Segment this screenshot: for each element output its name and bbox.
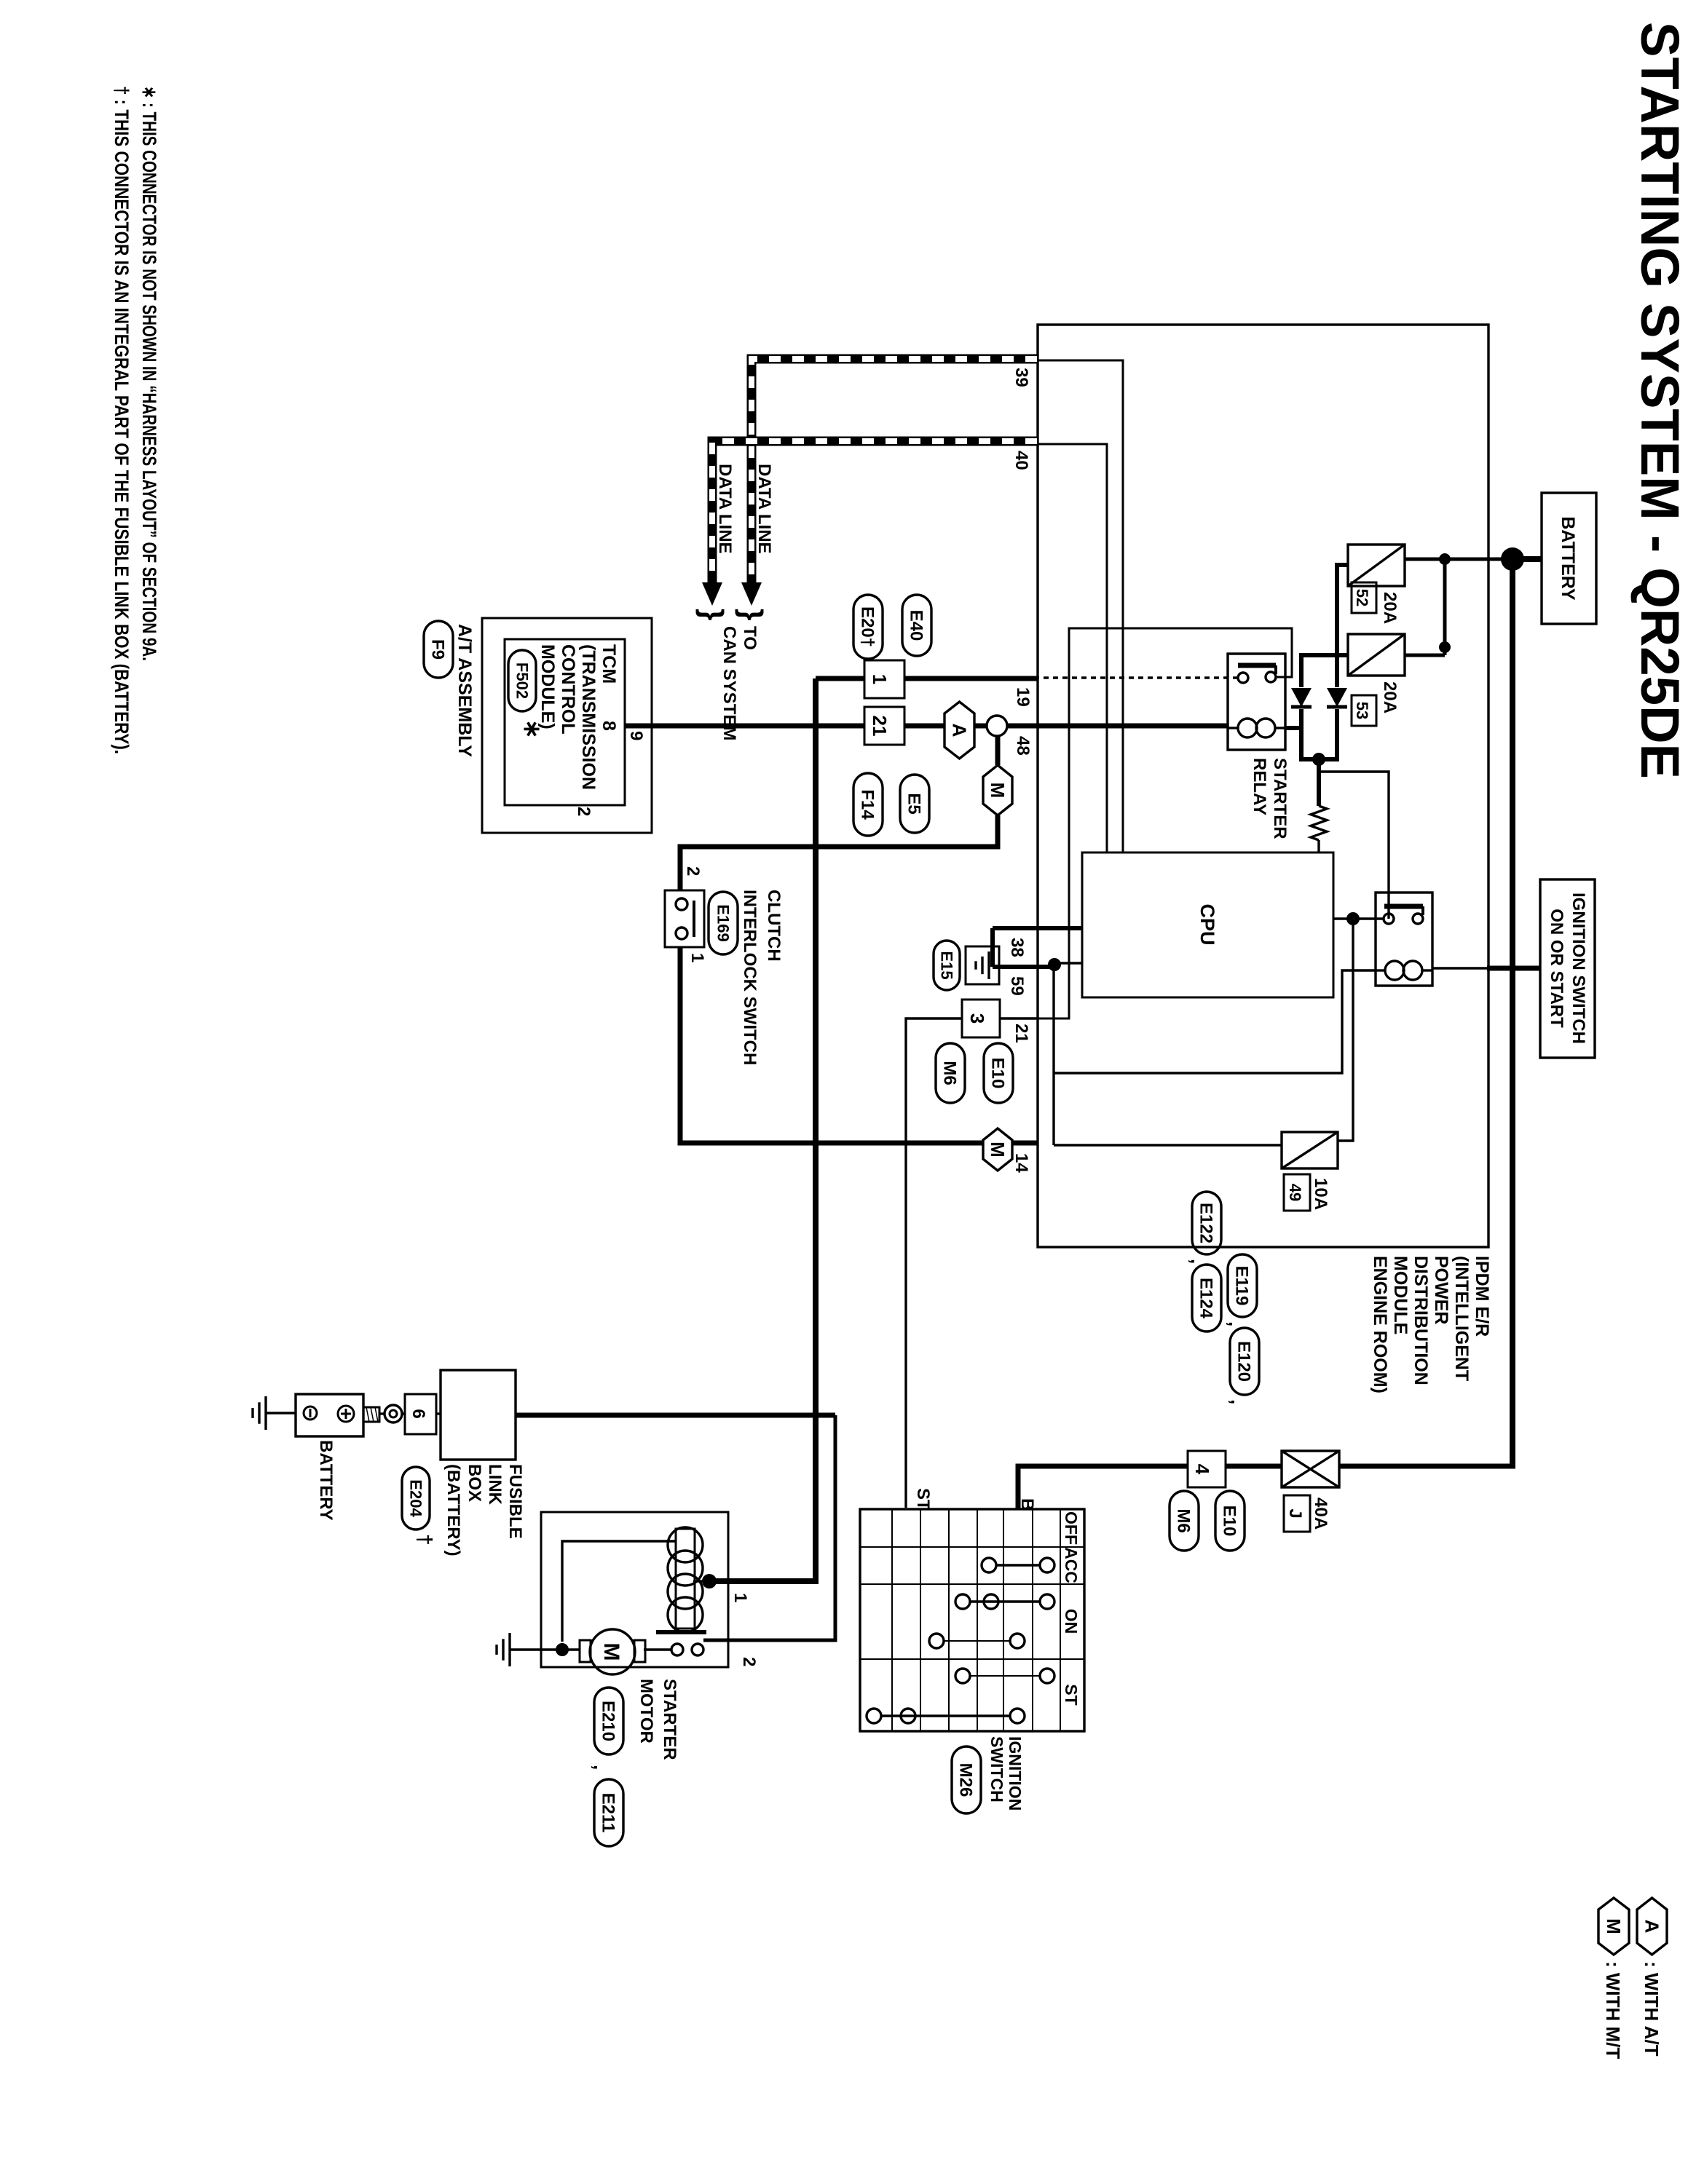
wire contact to brush — [644, 1648, 671, 1650]
wire ignition switch stub — [1487, 966, 1540, 971]
ignition relay coil — [1376, 961, 1432, 980]
wire connector21 to TCM — [625, 724, 864, 729]
svg-text:DATA LINE: DATA LINE — [754, 464, 774, 554]
label pin 38 — [1007, 938, 1027, 957]
svg-text:21: 21 — [869, 716, 891, 737]
wire fusible link riser — [516, 1413, 835, 1418]
comma between E119 E120 — [1225, 1321, 1249, 1404]
CPU box — [1082, 852, 1333, 997]
connector M26 — [952, 1746, 981, 1813]
wire relay contact to pin21 internal — [1037, 628, 1292, 1018]
solenoid contact plate — [656, 1630, 706, 1634]
svg-text:F502: F502 — [513, 662, 531, 699]
fusible link box component — [441, 1370, 516, 1460]
label solenoid pin 1 — [730, 1593, 750, 1602]
clutch switch contact right — [676, 927, 687, 939]
wire node to resistor — [1317, 759, 1321, 806]
wire CPU stub to node D1 — [1054, 962, 1082, 964]
connector E10 second — [1215, 1491, 1245, 1551]
ignition relay contact bar — [1384, 906, 1423, 915]
svg-text:6: 6 — [409, 1409, 428, 1418]
wire relay contact to pin 19 dashed — [1037, 676, 1238, 678]
svg-text:CLUTCH: CLUTCH — [764, 890, 784, 962]
svg-text:E120: E120 — [1234, 1341, 1254, 1382]
fusible link 40A J — [1282, 1451, 1339, 1487]
svg-text:A: A — [948, 724, 970, 737]
connector E119 — [1228, 1254, 1257, 1317]
svg-text:,: , — [1187, 1259, 1209, 1264]
label 40A — [1311, 1497, 1330, 1530]
wire pin19 out — [816, 676, 1037, 681]
svg-text:E124: E124 — [1196, 1278, 1216, 1319]
svg-text:M26: M26 — [956, 1763, 976, 1797]
connector M6 — [936, 1043, 965, 1103]
label 20A fuse52 — [1380, 592, 1400, 624]
svg-text:E10: E10 — [1220, 1506, 1239, 1537]
starter motor brush lower — [580, 1640, 591, 1662]
wire fuse49 top to node D2 — [1338, 919, 1353, 1141]
svg-text:FUSIBLE: FUSIBLE — [505, 1464, 525, 1539]
label clutch pin 2 — [683, 866, 703, 876]
wire M to clutch feed — [680, 815, 998, 890]
svg-text:1: 1 — [869, 674, 891, 684]
svg-text:40: 40 — [1011, 451, 1031, 470]
connector box 3 — [962, 1000, 1000, 1037]
label pin 9 — [626, 731, 646, 740]
wire starter ground stem — [510, 1648, 562, 1650]
wire circle to A hexagon — [974, 724, 987, 729]
wire battery to ground — [266, 1412, 296, 1414]
connector E40 — [902, 595, 931, 656]
svg-text:INTERLOCK SWITCH: INTERLOCK SWITCH — [740, 890, 760, 1065]
svg-text:2: 2 — [739, 1657, 759, 1666]
node fuse bus right — [1439, 641, 1451, 653]
legend hexagon M — [1598, 1898, 1629, 1955]
label DATA LINE 2 — [715, 464, 735, 554]
wire pin14 down — [1012, 1141, 1037, 1146]
grid ACC contacts — [982, 1558, 1054, 1572]
diode D2 — [1327, 688, 1347, 707]
svg-text:SWITCH: SWITCH — [987, 1736, 1006, 1803]
connector E15 — [934, 941, 960, 990]
svg-text:F14: F14 — [858, 789, 877, 820]
svg-text:CPU: CPU — [1196, 903, 1218, 945]
CAN data line pin39 — [752, 359, 1037, 582]
svg-text:19: 19 — [1013, 687, 1033, 707]
wire pin21 to connector 3 — [1000, 1017, 1037, 1019]
IPDM E/R label — [1370, 1256, 1492, 1393]
svg-text:E15: E15 — [937, 951, 955, 979]
battery plus terminal — [338, 1406, 354, 1422]
svg-text:1: 1 — [730, 1593, 750, 1602]
svg-text:38: 38 — [1007, 938, 1027, 957]
legend hexagon A — [1637, 1898, 1667, 1955]
svg-text:(BATTERY): (BATTERY) — [443, 1464, 463, 1556]
wire circle to M hexagon — [995, 736, 1001, 765]
label solenoid pin 2 — [739, 1657, 759, 1666]
grid ON contacts right — [929, 1634, 1025, 1648]
label pin 40 — [1011, 451, 1031, 470]
junction open circle pin48 — [987, 716, 1007, 736]
CAN data line pin40 — [712, 441, 1037, 582]
label STARTER RELAY — [1250, 758, 1290, 839]
connector F9 — [424, 621, 453, 678]
label J box — [1284, 1495, 1310, 1532]
label pin 59 — [1007, 976, 1027, 996]
wire diode D2 out — [1320, 709, 1337, 759]
svg-text:8: 8 — [599, 721, 619, 731]
svg-text:14: 14 — [1011, 1153, 1031, 1173]
svg-text:STARTER: STARTER — [660, 1679, 679, 1760]
svg-text:TCM: TCM — [599, 644, 619, 684]
ignition switch grid box — [860, 1509, 1084, 1731]
svg-text:BATTERY: BATTERY — [316, 1440, 336, 1521]
label IGNITION SWITCH — [987, 1736, 1025, 1811]
wire battery node to fuse52 — [1405, 558, 1513, 561]
hexagon M second — [983, 1128, 1012, 1171]
starter relay box — [1228, 654, 1285, 750]
ignition relay box — [1376, 893, 1432, 986]
wire 6 to ring — [402, 1412, 405, 1415]
svg-text:49: 49 — [1286, 1184, 1304, 1201]
connector E124 — [1192, 1265, 1221, 1332]
node D2 on CPU wire — [1346, 912, 1360, 925]
wire contact feed W2 — [703, 1415, 835, 1640]
label TCM pin 2 — [574, 807, 593, 816]
svg-text:53: 53 — [1353, 702, 1371, 719]
svg-text:DATA LINE: DATA LINE — [715, 464, 735, 554]
label clutch pin 1 — [687, 953, 707, 962]
wire pin39 internal — [1037, 360, 1123, 852]
svg-text:10A: 10A — [1311, 1178, 1330, 1210]
label 10A — [1311, 1178, 1330, 1210]
connector F14 — [853, 773, 883, 836]
svg-text:†: † — [414, 1534, 436, 1546]
svg-text:,: , — [590, 1765, 612, 1770]
wire A to connector 21 — [904, 724, 944, 729]
solenoid contact circle upper — [692, 1644, 703, 1655]
connector E210 — [594, 1688, 623, 1754]
fuse 52 20A — [1348, 545, 1405, 586]
wire B feed down — [1339, 1464, 1515, 1469]
connector E211 — [594, 1779, 623, 1846]
starter motor brush upper — [634, 1640, 645, 1662]
svg-text:M: M — [987, 783, 1009, 799]
svg-text:M: M — [1603, 1918, 1625, 1934]
wire solenoid coil feed — [709, 678, 816, 1581]
svg-text:BATTERY: BATTERY — [1558, 516, 1578, 601]
svg-text:J: J — [1285, 1508, 1305, 1518]
label FUSIBLE LINK BOX — [443, 1464, 525, 1556]
svg-text:E169: E169 — [714, 904, 732, 941]
connector F502 star — [508, 650, 545, 739]
starter relay contact terminal circle upper — [1266, 672, 1276, 682]
wire resistor to CPU — [1317, 840, 1320, 852]
solenoid core — [676, 1529, 695, 1629]
svg-text:OFF: OFF — [1062, 1511, 1081, 1545]
grid ST contacts left — [955, 1669, 1054, 1683]
wire dot to coil — [693, 1580, 709, 1582]
label 52 box — [1352, 582, 1376, 613]
connector E169 — [709, 892, 738, 954]
fuse 49 10A — [1282, 1132, 1338, 1168]
svg-text:52: 52 — [1353, 589, 1371, 606]
diode D1 — [1291, 688, 1312, 707]
wire pin59 down — [993, 965, 1054, 969]
label pin 21 — [1011, 1024, 1031, 1043]
svg-text:E210: E210 — [599, 1701, 618, 1741]
label pin 48 — [1013, 736, 1033, 756]
ground battery — [253, 1396, 266, 1430]
wire pin48 out — [1007, 724, 1037, 729]
svg-text:A: A — [1641, 1920, 1663, 1934]
resistor in IPDM — [1311, 806, 1327, 840]
svg-text:: WITH M/T: : WITH M/T — [1602, 1961, 1624, 2059]
label pin 39 — [1011, 368, 1031, 387]
legend text WITH MT — [1602, 1961, 1624, 2059]
legend text WITH AT — [1641, 1961, 1663, 2057]
wire fuseJ to connector 4 — [1226, 1464, 1282, 1469]
connector E10 — [984, 1043, 1013, 1103]
wire relay2 contact to CPU — [1333, 917, 1384, 919]
svg-text:STARTING SYSTEM - QR25DE: STARTING SYSTEM - QR25DE — [1630, 22, 1688, 779]
ground box E15 — [966, 946, 999, 984]
wire bus to fuse53 — [1405, 654, 1445, 657]
connector box 4 — [1188, 1451, 1226, 1487]
node solenoid coil dot — [702, 1574, 717, 1588]
svg-text:RELAY: RELAY — [1250, 758, 1269, 815]
svg-text:BOX: BOX — [465, 1464, 484, 1502]
TCM label — [537, 644, 619, 790]
battery terminal hatched — [363, 1407, 379, 1422]
ignition relay contact circle upper — [1413, 914, 1423, 924]
svg-text:E5: E5 — [904, 793, 924, 814]
note asterisk harness layout — [138, 86, 160, 661]
wire CPU pin38 to ground — [993, 926, 1082, 930]
svg-text:E122: E122 — [1196, 1203, 1216, 1243]
ignition relay contact circle lower — [1384, 914, 1394, 924]
node diode junction — [1312, 753, 1325, 766]
label BATTERY component — [316, 1440, 336, 1521]
wire ring to terminal — [379, 1412, 384, 1415]
svg-text:∗ : THIS CONNECTOR IS NOT SHOW: ∗ : THIS CONNECTOR IS NOT SHOWN IN “HARN… — [138, 86, 160, 661]
arrow data line 1 — [741, 582, 762, 606]
svg-text:E40: E40 — [907, 610, 926, 641]
label B terminal — [1017, 1498, 1037, 1511]
wire M2 to clutch switch — [680, 947, 983, 1143]
label STARTER MOTOR — [636, 1679, 679, 1760]
svg-text:IGNITION SWITCH: IGNITION SWITCH — [1569, 893, 1588, 1044]
svg-text:(INTELLIGENT: (INTELLIGENT — [1451, 1256, 1472, 1381]
wire relay2 coil bottom loop — [1054, 970, 1376, 1073]
wire ground joiner — [990, 928, 995, 967]
node fuse bus left — [1439, 553, 1451, 565]
svg-text:E204: E204 — [406, 1479, 425, 1517]
connector E5 — [900, 775, 929, 833]
battery component box — [296, 1394, 363, 1436]
grid ON contacts — [955, 1594, 1054, 1609]
connector box 21 — [864, 707, 904, 745]
connector E122 — [1192, 1192, 1221, 1254]
battery minus terminal — [304, 1406, 317, 1420]
grid label OFF — [1062, 1511, 1081, 1545]
svg-text:DISTRIBUTION: DISTRIBUTION — [1411, 1256, 1431, 1385]
svg-text:1: 1 — [687, 953, 707, 962]
svg-text:ENGINE ROOM): ENGINE ROOM) — [1370, 1256, 1390, 1393]
connector M6 second — [1170, 1491, 1199, 1551]
solenoid coil loops — [668, 1527, 703, 1632]
arrow data line 2 — [702, 582, 722, 606]
clutch switch bar — [693, 901, 695, 937]
starter relay contact bar — [1238, 665, 1276, 674]
svg-text:E119: E119 — [1232, 1266, 1252, 1306]
IPDM E/R box — [1038, 325, 1488, 1247]
connector E20 dagger — [853, 595, 883, 659]
TCM box — [505, 639, 625, 805]
starter relay contact terminal circle lower — [1238, 673, 1248, 683]
svg-text:}: } — [695, 609, 730, 620]
starter relay coil — [1228, 719, 1285, 737]
svg-text:20A: 20A — [1380, 592, 1400, 624]
hexagon A — [944, 702, 974, 759]
wire bus 871 — [1052, 963, 1054, 1145]
fuse 53 20A — [1348, 634, 1405, 676]
node D1 junction — [1048, 958, 1061, 971]
grid ST contacts right — [867, 1709, 1025, 1723]
svg-text:: WITH A/T: : WITH A/T — [1641, 1961, 1663, 2057]
node starter ground — [556, 1643, 569, 1656]
wire fuse53 to diode D1 — [1301, 655, 1349, 687]
wire coil left to ground line — [562, 1541, 676, 1642]
label pin 14 — [1011, 1153, 1031, 1173]
ring terminal — [384, 1405, 402, 1423]
svg-text:LINK: LINK — [485, 1464, 505, 1506]
battery supply box — [1542, 493, 1596, 624]
label 53 box — [1352, 695, 1376, 726]
svg-text:}: } — [735, 609, 769, 620]
hexagon M first — [983, 765, 1012, 815]
ground starter motor — [497, 1633, 510, 1666]
label CLUTCH INTERLOCK SWITCH — [740, 890, 784, 1065]
wire fuse49 bottom to bus — [1054, 1144, 1282, 1146]
note dagger fusible link box — [111, 86, 133, 754]
svg-text:MODULE: MODULE — [1390, 1256, 1411, 1334]
svg-text:ST: ST — [913, 1488, 933, 1511]
AT assembly box — [482, 618, 652, 833]
wire brush to ground node — [562, 1648, 580, 1650]
svg-text:E211: E211 — [599, 1793, 618, 1833]
svg-text:2: 2 — [574, 807, 593, 816]
svg-text:IPDM E/R: IPDM E/R — [1472, 1256, 1492, 1337]
svg-text:,: , — [1227, 1399, 1249, 1404]
title STARTING SYSTEM - QR25DE — [1630, 22, 1688, 779]
ignition switch ON OR START box — [1540, 879, 1595, 1058]
svg-text:M: M — [599, 1643, 623, 1661]
connector box 1 — [864, 660, 904, 698]
comma after E122 — [1187, 1259, 1209, 1264]
comma E210 E211 — [590, 1765, 612, 1770]
label ST terminal — [913, 1488, 933, 1511]
label TO CAN SYSTEM — [719, 626, 760, 740]
svg-text:ACC: ACC — [1062, 1547, 1081, 1583]
wire fuse52 to diode D2 — [1337, 565, 1348, 687]
svg-text:M6: M6 — [940, 1061, 960, 1085]
svg-text:40A: 40A — [1311, 1497, 1330, 1530]
starter motor box — [541, 1512, 728, 1667]
svg-text:MOTOR: MOTOR — [636, 1679, 656, 1744]
wire relay coil to pin 48 — [1037, 724, 1228, 729]
svg-text:POWER: POWER — [1431, 1256, 1451, 1324]
svg-text:MODULE): MODULE) — [537, 644, 558, 729]
wire starter relay coil top to diode node — [1285, 726, 1301, 730]
wire fuse bus — [1443, 559, 1447, 655]
ignition switch grid lines — [860, 1509, 1084, 1731]
svg-text:59: 59 — [1007, 976, 1027, 996]
svg-text:M6: M6 — [1174, 1508, 1194, 1532]
svg-text:(TRANSMISSION: (TRANSMISSION — [578, 644, 599, 790]
svg-text:9: 9 — [626, 731, 646, 740]
svg-text:STARTER: STARTER — [1270, 758, 1290, 839]
grid label ACC — [1062, 1547, 1081, 1583]
grid label ST — [1062, 1684, 1081, 1705]
svg-text:CONTROL: CONTROL — [558, 644, 578, 735]
svg-text:E20†: E20† — [858, 606, 877, 647]
brace data line 2 — [695, 609, 730, 620]
wire battery box to main node — [1511, 556, 1542, 562]
label DATA LINE 1 — [754, 464, 774, 554]
svg-text:IGNITION: IGNITION — [1006, 1736, 1025, 1811]
svg-text:2: 2 — [683, 866, 703, 876]
wire pin40 internal — [1037, 444, 1107, 852]
clutch switch contact left — [676, 898, 687, 910]
svg-text:48: 48 — [1013, 736, 1033, 756]
svg-text:3: 3 — [966, 1013, 988, 1024]
svg-text:39: 39 — [1011, 368, 1031, 387]
wire fusible to 6 — [436, 1412, 441, 1415]
clutch interlock switch box — [665, 890, 704, 947]
label 20A fuse53 — [1380, 681, 1400, 713]
wire ST line — [906, 1018, 962, 1508]
svg-text:ON: ON — [1062, 1609, 1081, 1634]
svg-text:21: 21 — [1011, 1024, 1031, 1043]
label AT ASSEMBLY — [454, 624, 475, 757]
connector E204 dagger — [402, 1467, 436, 1546]
connector E120 — [1230, 1328, 1259, 1395]
svg-text:ON OR START: ON OR START — [1547, 909, 1566, 1028]
svg-text:F9: F9 — [428, 639, 448, 660]
svg-text:TO: TO — [740, 626, 760, 650]
wire connector4 to ignition switch B — [1018, 1466, 1188, 1509]
wire ign box edge to relay coil — [1432, 967, 1488, 969]
svg-text:ST: ST — [1062, 1684, 1081, 1705]
svg-text:20A: 20A — [1380, 681, 1400, 713]
connector box 6 — [405, 1394, 436, 1434]
svg-text:4: 4 — [1191, 1464, 1213, 1475]
starter motor M circle — [590, 1629, 635, 1674]
svg-text:∗: ∗ — [519, 719, 545, 739]
svg-text:E10: E10 — [988, 1058, 1008, 1089]
wire relay2 contact feed — [1319, 772, 1389, 919]
solenoid contact circle lower — [671, 1644, 683, 1655]
label 49 box — [1284, 1174, 1310, 1211]
brace data line 1 — [735, 609, 769, 620]
wire diode D1 out — [1301, 709, 1317, 759]
grid label ON — [1062, 1609, 1081, 1634]
svg-text:† : THIS CONNECTOR IS AN INTEG: † : THIS CONNECTOR IS AN INTEGRAL PART O… — [111, 86, 133, 754]
svg-text:A/T ASSEMBLY: A/T ASSEMBLY — [454, 624, 475, 757]
node battery main junction — [1501, 547, 1524, 571]
wire battery main bus — [1510, 559, 1515, 1466]
